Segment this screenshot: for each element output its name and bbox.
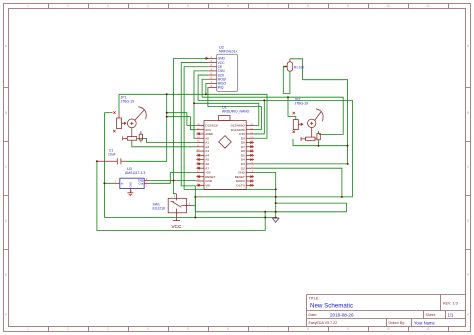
svg-text:EG1218: EG1218 — [153, 207, 166, 211]
junction at 341.9,196.9 — [341, 196, 343, 198]
junction at 288,97.2 — [287, 96, 289, 98]
wire net MISO: U2.MISO down — [206, 83, 208, 94]
svg-text:R1 10K: R1 10K — [294, 65, 306, 69]
junction at 166.7,112.7 — [166, 112, 168, 114]
wire JP2 bottom run — [293, 139, 348, 146]
svg-text:5: 5 — [187, 327, 189, 331]
junction at 194,103.3 — [193, 102, 195, 104]
svg-text:9: 9 — [347, 327, 349, 331]
no-connect crosses U1 — [198, 133, 253, 187]
wire net D2 step — [254, 168, 342, 197]
wire run right rail to SW1 row — [195, 100, 352, 196]
junction at 166.7,116.7 — [166, 116, 168, 118]
svg-text:3: 3 — [107, 327, 109, 331]
junction at 166.7,94.3 — [166, 93, 168, 95]
svg-text:AMS1117-3.3: AMS1117-3.3 — [125, 171, 145, 175]
ground at U1 GND net — [272, 218, 279, 222]
svg-text:1: 1 — [27, 327, 29, 331]
svg-text:VIN: VIN — [205, 183, 210, 187]
wire net GND: U2.GND to SW1 pin1 — [174, 58, 209, 193]
svg-text:F: F — [5, 313, 7, 317]
svg-text:REV:: REV: — [443, 301, 451, 305]
wire run y=217.5 — [104, 217, 276, 219]
junction at 347.6,163.9 — [347, 163, 349, 165]
junction at 275.7,196.9 — [275, 196, 277, 198]
connector JP1 joystick — [117, 107, 147, 143]
svg-text:Sheet:: Sheet: — [426, 313, 436, 317]
svg-text:GND: GND — [129, 182, 133, 188]
svg-text:1.0: 1.0 — [453, 301, 458, 305]
junction at 318.4,145.7 — [317, 145, 319, 147]
junction at 347.6,145.7 — [347, 145, 349, 147]
IC U3 AMS1117-3.3 — [114, 178, 150, 193]
junction at 104.4,183.3 — [103, 182, 105, 184]
resistor R1 — [283, 59, 292, 71]
wire net MOSI: U2.MOSI to JP2 — [202, 79, 343, 134]
svg-text:2: 2 — [67, 4, 69, 8]
svg-text:11: 11 — [426, 4, 430, 8]
svg-text:TITLE:: TITLE: — [309, 296, 320, 300]
wire net IRQ: U2.IRQ to U1.D11 — [208, 88, 262, 130]
wire branch to JP2 top pin — [288, 97, 296, 119]
wire feed to U1.3V3 — [167, 117, 197, 130]
U1 diamond — [219, 136, 232, 149]
svg-text:10: 10 — [386, 327, 390, 331]
title block — [307, 295, 466, 327]
svg-text:8: 8 — [307, 4, 309, 8]
junction at 275.7,211.8 — [275, 211, 277, 213]
wire net GND: U3.TAB to U1.GND — [150, 180, 196, 182]
IC U1 ARDUINO_NANO — [196, 116, 254, 190]
ground under U3 — [127, 193, 133, 196]
junction at 265.2,211.8 — [264, 211, 266, 213]
svg-text:1/1: 1/1 — [448, 312, 454, 317]
svg-text:IRQ: IRQ — [218, 86, 224, 90]
svg-text:Drawn By:: Drawn By: — [389, 321, 406, 325]
wire net CE: U2.CE right run — [184, 67, 276, 190]
junction at 275.7,217.5 — [275, 217, 277, 219]
wire net VIN: U3.IN vertical — [104, 113, 113, 218]
svg-text:7: 7 — [267, 327, 269, 331]
wire JP2 part drop — [317, 140, 319, 146]
wire net CSN: U2.CSN to U1.A0 — [194, 71, 208, 138]
wire net R1 top to right rail — [290, 59, 348, 164]
IC U2 NRF24L01+ — [208, 54, 237, 91]
switch SW1 EG1218 — [168, 194, 192, 213]
svg-text:NRF24L01+: NRF24L01+ — [219, 50, 237, 54]
svg-text:6: 6 — [227, 4, 229, 8]
junction at 205.9,94.3 — [205, 93, 207, 95]
junction at 173.5,180.5 — [173, 180, 175, 182]
svg-text:Your Name: Your Name — [414, 320, 435, 325]
wire C1 right riser — [126, 94, 167, 161]
svg-text:2: 2 — [67, 327, 69, 331]
svg-text:In: In — [121, 182, 124, 186]
wire net SCK: U2.SCK to U1.D10 — [198, 75, 264, 134]
wire net A1: JP1 pot to U1.A1 — [137, 138, 197, 142]
wire net JP1 top run to U1.D9 — [119, 94, 267, 138]
wire net VCC: U2.VCC to C-run — [181, 63, 346, 212]
svg-text:10: 10 — [386, 4, 390, 8]
svg-text:EasyEDA V5.7.22: EasyEDA V5.7.22 — [309, 321, 338, 325]
svg-text:ARDUINO_NANO: ARDUINO_NANO — [222, 110, 250, 114]
no-connect crosses JP2 — [293, 112, 295, 133]
svg-text:New Schematic: New Schematic — [310, 303, 353, 310]
svg-text:4: 4 — [147, 327, 149, 331]
wire stub to JP1 pot left — [104, 112, 112, 114]
junction at 96.9,161.3 — [96, 160, 98, 162]
wire SW1 pin2 riser — [192, 197, 195, 218]
wire R1 bottom loop — [283, 67, 290, 94]
junction at 195.3,217.5 — [194, 217, 196, 219]
wire feed to U1.D13 — [167, 113, 197, 126]
wire net GND: U1.GND to ground — [254, 172, 276, 216]
wire JP1 pot top drop — [118, 94, 120, 112]
svg-text:4: 4 — [147, 4, 149, 8]
svg-text:6: 6 — [227, 327, 229, 331]
wire branch to U1.D12 — [194, 103, 259, 125]
svg-text:7: 7 — [267, 4, 269, 8]
svg-text:VCC: VCC — [171, 224, 182, 230]
svg-text:Out: Out — [139, 182, 144, 186]
svg-text:1: 1 — [27, 4, 29, 8]
svg-text:Date:: Date: — [309, 313, 318, 317]
connector JP2 joystick — [293, 109, 323, 141]
junction at 195.3,196.9 — [194, 196, 196, 198]
wire net C1 down to bottom run — [97, 161, 265, 230]
svg-text:3: 3 — [107, 4, 109, 8]
junction at 265.2,217.5 — [264, 217, 266, 219]
svg-text:11: 11 — [426, 327, 430, 331]
svg-text:F: F — [467, 313, 469, 317]
capacitor C1 10uF — [97, 158, 126, 164]
power flag VCC — [173, 213, 180, 221]
svg-text:D1/TX: D1/TX — [236, 183, 245, 187]
no-connect crosses JP1 — [113, 111, 115, 132]
svg-text:10uF: 10uF — [108, 153, 116, 157]
svg-text:5: 5 — [187, 4, 189, 8]
wire net D3 to right rail — [254, 163, 348, 165]
junction at 275.7,203.1 — [275, 202, 277, 204]
junction at 264.3,100.4 — [263, 99, 265, 101]
wire net A2: JP1 wiper to U1.A2 — [132, 140, 197, 147]
svg-text:JTBG-19: JTBG-19 — [295, 102, 309, 106]
junction at 275.7,189.4 — [275, 188, 277, 190]
svg-text:JTBG-19: JTBG-19 — [121, 100, 135, 104]
netflag arrow at U2 GND pin — [206, 57, 209, 60]
wire net +5V: U3.OUT to U1.+5V — [150, 172, 196, 183]
svg-text:8: 8 — [307, 327, 309, 331]
svg-text:2018-08-26: 2018-08-26 — [330, 312, 354, 317]
svg-text:9: 9 — [347, 4, 349, 8]
